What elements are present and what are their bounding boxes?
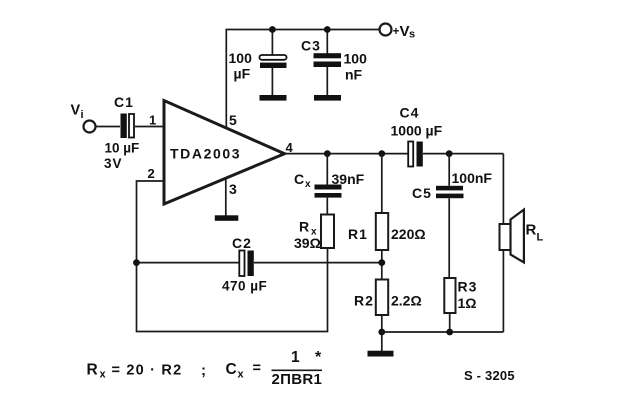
C2 labels <box>222 235 267 294</box>
capacitor C3 100nF <box>314 53 342 67</box>
+Vs label <box>393 23 416 41</box>
svg-text:R2: R2 <box>354 293 374 309</box>
C1 value labels <box>104 94 139 171</box>
resistor R2 <box>376 280 388 316</box>
svg-text:100: 100 <box>344 51 368 67</box>
svg-text:nF: nF <box>345 67 363 83</box>
wire R1 to node <box>381 250 383 280</box>
wire 100uF to ground <box>271 68 273 96</box>
junction dot output/R1 <box>378 150 385 157</box>
svg-text:1: 1 <box>291 349 300 366</box>
wire Cx to Rx <box>326 198 328 215</box>
pin 4 label <box>286 140 294 155</box>
svg-text:V: V <box>400 23 410 40</box>
svg-text:2ΠBR1: 2ΠBR1 <box>272 371 323 388</box>
svg-text:i: i <box>81 109 84 121</box>
svg-text:TDA2003: TDA2003 <box>170 146 241 162</box>
wire C3 top stem <box>326 30 328 54</box>
capacitor C2 470uF electrolytic <box>239 251 254 277</box>
resistor R1 <box>376 213 388 250</box>
svg-text:x: x <box>305 179 311 190</box>
svg-text:C4: C4 <box>400 105 420 121</box>
wire pin 5 up and supply rail <box>226 30 379 129</box>
supply terminal +Vs <box>380 24 392 36</box>
svg-text:x: x <box>100 369 107 381</box>
svg-text:C2: C2 <box>232 235 252 251</box>
pin 3 ground stem <box>225 178 227 216</box>
svg-text:R: R <box>87 362 98 379</box>
svg-text:100: 100 <box>229 50 253 66</box>
svg-text:C3: C3 <box>301 38 321 54</box>
wire Cx stem <box>326 154 328 185</box>
svg-text:3: 3 <box>229 181 237 197</box>
wire R1 stem <box>381 154 383 213</box>
svg-text:39nF: 39nF <box>332 171 365 187</box>
Rx labels <box>294 219 321 252</box>
resistor Rx <box>321 215 334 249</box>
ground under R2 <box>368 351 394 357</box>
svg-text:L: L <box>537 232 544 244</box>
svg-text:C: C <box>226 361 237 378</box>
svg-text:1: 1 <box>149 113 156 128</box>
svg-text:2.2Ω: 2.2Ω <box>391 293 422 309</box>
R3 labels <box>458 279 478 312</box>
ground under 100uF <box>260 95 287 101</box>
speaker RL <box>500 210 524 263</box>
svg-text:= 20 · R2: = 20 · R2 <box>112 363 183 379</box>
resistor R3 <box>444 278 455 313</box>
wire R3 to bottom <box>449 313 451 332</box>
wire 100uF top stem <box>271 30 273 56</box>
pin 5 label <box>229 112 237 128</box>
svg-text:;: ; <box>201 362 206 379</box>
pin 1 label <box>149 113 156 128</box>
junction dot output/C5 <box>446 150 453 157</box>
svg-text:2: 2 <box>148 166 155 181</box>
junction dot rail/100uF <box>269 26 276 33</box>
S-3205 drawing number <box>464 368 515 383</box>
wire Vi to C1 <box>96 126 120 128</box>
svg-text:*: * <box>315 349 322 366</box>
ground under C3 <box>314 95 341 101</box>
svg-text:µF: µF <box>234 66 251 82</box>
svg-text:3V: 3V <box>104 156 123 171</box>
wire bottom node to speaker <box>382 331 504 333</box>
svg-text:220Ω: 220Ω <box>391 226 426 242</box>
wire speaker vertical <box>502 154 504 332</box>
wire C3 to ground <box>326 67 328 96</box>
junction dot output/Cx <box>324 150 331 157</box>
junction dot R3/bottom <box>446 329 453 336</box>
wire pin 2 feedback loop (left, bottom, up to Rx) <box>137 181 328 332</box>
svg-text:1000 µF: 1000 µF <box>391 123 443 139</box>
Cx labels <box>294 171 365 190</box>
wire C2 to R2 node <box>254 262 382 264</box>
wire C5 to R3 <box>448 198 450 278</box>
wire junction to C2 <box>137 262 240 264</box>
svg-text:5: 5 <box>229 112 237 128</box>
svg-text:39Ω: 39Ω <box>294 235 321 251</box>
capacitor C1 10uF electrolytic <box>121 114 135 139</box>
wire output pin 4 to C4 <box>285 153 409 155</box>
op-amp U1 TDA2003 triangle <box>164 101 285 205</box>
svg-text:100nF: 100nF <box>452 170 493 186</box>
input terminal Vi <box>84 121 96 133</box>
svg-text:R3: R3 <box>458 279 478 295</box>
node Vi label <box>71 103 84 122</box>
wire C4 to speaker corner <box>423 153 503 155</box>
C3 labels <box>301 38 367 83</box>
wire ground stem <box>381 332 383 351</box>
wire C5 stem <box>448 154 450 186</box>
wire C1 to pin 1 <box>135 126 164 128</box>
formula Rx = 20*R2 ; Cx = 1/(2piBR1) <box>87 349 323 388</box>
svg-text:=: = <box>253 361 261 377</box>
C4 labels <box>391 105 443 139</box>
svg-text:C5: C5 <box>412 185 432 201</box>
U1 label TDA2003 <box>170 146 241 162</box>
junction dot pin2/C2 <box>133 259 140 266</box>
ground under pin 3 <box>215 215 239 221</box>
svg-text:x: x <box>238 369 245 381</box>
capacitor Cx 39nF <box>315 185 342 198</box>
svg-text:C1: C1 <box>114 94 134 110</box>
wire R2 to bottom node <box>381 315 383 332</box>
svg-text:R: R <box>526 222 537 239</box>
pin 2 label <box>148 166 155 181</box>
svg-text:R: R <box>299 219 309 235</box>
junction dot rail/C3 <box>324 26 331 33</box>
capacitor C5 100nF <box>436 186 464 198</box>
RL label <box>526 222 544 244</box>
C5 labels <box>412 170 492 201</box>
capacitor 100uF electrolytic <box>260 55 287 68</box>
svg-text:V: V <box>71 103 81 119</box>
svg-text:s: s <box>409 29 415 41</box>
pin 3 label <box>229 181 237 197</box>
100uF value label <box>229 50 253 82</box>
svg-text:S - 3205: S - 3205 <box>464 368 515 383</box>
junction dot R1/R2/C2 <box>378 259 385 266</box>
svg-text:C: C <box>294 171 304 187</box>
formula fraction bar <box>272 369 323 371</box>
svg-text:10 µF: 10 µF <box>105 141 140 156</box>
capacitor C4 1000uF electrolytic <box>408 142 423 167</box>
svg-text:1Ω: 1Ω <box>458 295 477 311</box>
svg-text:R1: R1 <box>348 226 368 242</box>
svg-text:470 µF: 470 µF <box>222 279 267 294</box>
junction dot R2/ground <box>378 329 385 336</box>
R1 labels <box>348 226 426 242</box>
R2 labels <box>354 293 422 309</box>
